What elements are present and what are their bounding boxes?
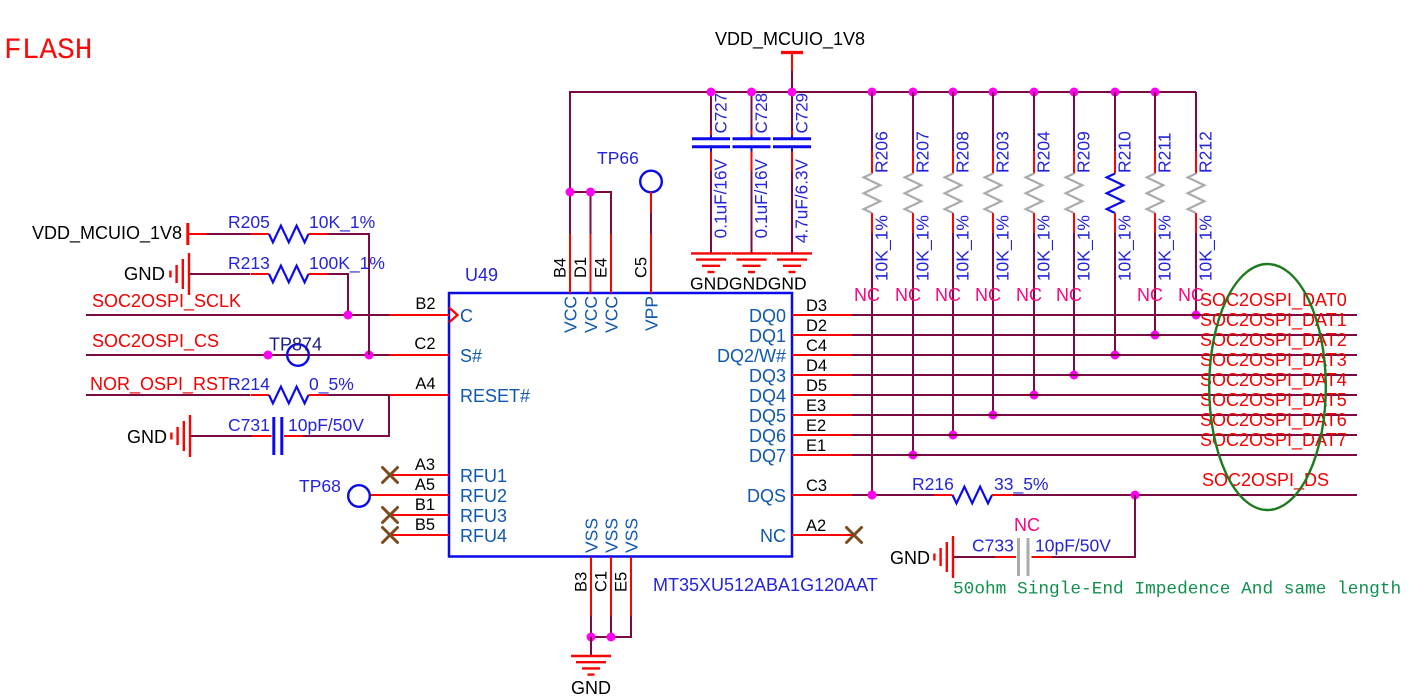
svg-text:D2: D2 <box>806 317 827 335</box>
svg-text:VPP: VPP <box>641 296 661 331</box>
svg-text:C728: C728 <box>752 93 771 134</box>
svg-text:E5: E5 <box>613 572 631 592</box>
svg-text:GND: GND <box>571 678 611 698</box>
svg-text:DQ0: DQ0 <box>749 306 786 326</box>
svg-text:D4: D4 <box>806 357 827 375</box>
svg-text:R203: R203 <box>993 131 1013 173</box>
svg-text:10K_1%: 10K_1% <box>1074 215 1095 281</box>
svg-text:GNDGNDGND: GNDGNDGND <box>690 274 807 294</box>
svg-text:C5: C5 <box>633 257 651 278</box>
svg-text:VCC: VCC <box>560 296 580 333</box>
svg-text:100K_1%: 100K_1% <box>309 253 385 274</box>
svg-text:10K_1%: 10K_1% <box>1196 215 1217 281</box>
svg-text:RFU2: RFU2 <box>460 486 507 506</box>
svg-text:VDD_MCUIO_1V8: VDD_MCUIO_1V8 <box>32 223 182 244</box>
svg-text:10K_1%: 10K_1% <box>872 215 893 281</box>
svg-text:U49: U49 <box>465 265 498 285</box>
svg-text:R211: R211 <box>1155 132 1175 173</box>
svg-text:NC: NC <box>1056 285 1082 305</box>
svg-text:VSS: VSS <box>621 518 641 553</box>
svg-text:DQ7: DQ7 <box>749 446 786 466</box>
svg-text:DQ4: DQ4 <box>749 386 786 406</box>
svg-text:FLASH: FLASH <box>4 33 93 67</box>
svg-text:RFU4: RFU4 <box>460 526 507 546</box>
svg-text:10pF/50V: 10pF/50V <box>288 415 364 435</box>
svg-text:10K_1%: 10K_1% <box>1115 215 1136 281</box>
svg-text:R205: R205 <box>228 212 270 232</box>
svg-text:VSS: VSS <box>601 518 621 553</box>
svg-text:SOC2OSPI_SCLK: SOC2OSPI_SCLK <box>92 291 241 312</box>
svg-text:0.1uF/16V: 0.1uF/16V <box>751 158 771 238</box>
svg-text:B2: B2 <box>415 295 435 313</box>
svg-text:C1: C1 <box>593 571 611 592</box>
svg-text:TP68: TP68 <box>299 476 341 496</box>
svg-text:GND: GND <box>890 548 930 568</box>
svg-text:RFU1: RFU1 <box>460 466 507 486</box>
svg-text:C3: C3 <box>806 477 827 495</box>
svg-text:E4: E4 <box>593 258 611 278</box>
svg-text:NC: NC <box>1014 515 1040 535</box>
svg-text:DQ1: DQ1 <box>749 326 786 346</box>
svg-text:DQ3: DQ3 <box>749 366 786 386</box>
svg-text:C: C <box>460 306 473 326</box>
svg-text:TP874: TP874 <box>269 335 322 355</box>
svg-text:R206: R206 <box>872 131 892 173</box>
svg-text:RFU3: RFU3 <box>460 506 507 526</box>
svg-text:E1: E1 <box>806 437 826 455</box>
svg-text:NC: NC <box>1016 285 1042 305</box>
svg-text:R204: R204 <box>1034 131 1054 173</box>
svg-text:10K_1%: 10K_1% <box>309 212 375 233</box>
svg-text:0.1uF/16V: 0.1uF/16V <box>711 158 731 238</box>
svg-text:A2: A2 <box>806 517 826 535</box>
svg-text:10K_1%: 10K_1% <box>993 215 1014 281</box>
svg-text:NC: NC <box>975 285 1001 305</box>
svg-text:A4: A4 <box>415 375 435 393</box>
svg-text:D3: D3 <box>806 297 827 315</box>
svg-text:VDD_MCUIO_1V8: VDD_MCUIO_1V8 <box>715 29 865 50</box>
svg-text:R212: R212 <box>1196 131 1216 173</box>
svg-text:SOC2OSPI_CS: SOC2OSPI_CS <box>92 331 219 352</box>
svg-text:10K_1%: 10K_1% <box>1155 215 1176 281</box>
svg-text:10pF/50V: 10pF/50V <box>1035 536 1111 556</box>
svg-text:NC: NC <box>854 285 880 305</box>
svg-text:GND: GND <box>124 263 165 284</box>
svg-text:D5: D5 <box>806 377 827 395</box>
svg-text:R209: R209 <box>1074 131 1094 173</box>
svg-text:A5: A5 <box>415 476 435 494</box>
svg-text:GND: GND <box>127 427 167 447</box>
svg-text:B4: B4 <box>552 258 570 278</box>
svg-text:R213: R213 <box>228 253 270 273</box>
svg-text:SOC2OSPI_DAT7: SOC2OSPI_DAT7 <box>1200 430 1347 451</box>
svg-text:R214: R214 <box>228 374 270 394</box>
svg-text:NC: NC <box>935 285 961 305</box>
svg-text:B5: B5 <box>415 516 435 534</box>
svg-text:D1: D1 <box>572 257 590 278</box>
svg-text:10K_1%: 10K_1% <box>1034 215 1055 281</box>
svg-text:E3: E3 <box>806 397 826 415</box>
svg-text:C733: C733 <box>972 536 1014 556</box>
svg-text:MT35XU512ABA1G120AAT: MT35XU512ABA1G120AAT <box>653 575 878 595</box>
svg-text:NOR_OSPI_RST: NOR_OSPI_RST <box>90 374 229 395</box>
svg-text:R208: R208 <box>953 131 973 173</box>
svg-text:33_5%: 33_5% <box>994 474 1049 495</box>
svg-text:RESET#: RESET# <box>460 386 530 406</box>
svg-text:DQ2/W#: DQ2/W# <box>717 346 786 366</box>
svg-text:R216: R216 <box>912 474 954 494</box>
svg-text:A3: A3 <box>415 456 435 474</box>
svg-text:B3: B3 <box>573 572 591 592</box>
svg-text:NC: NC <box>1137 285 1163 305</box>
svg-text:50ohm Single-End Impedence And: 50ohm Single-End Impedence And same leng… <box>953 580 1401 600</box>
svg-text:VCC: VCC <box>581 296 601 333</box>
svg-text:4.7uF/6.3V: 4.7uF/6.3V <box>792 158 812 243</box>
svg-text:C729: C729 <box>793 93 812 134</box>
svg-text:NC: NC <box>895 285 921 305</box>
svg-text:C731: C731 <box>228 415 270 435</box>
svg-text:C727: C727 <box>712 93 731 134</box>
svg-text:DQS: DQS <box>747 486 786 506</box>
svg-text:C2: C2 <box>414 335 435 353</box>
svg-text:0_5%: 0_5% <box>309 374 354 395</box>
svg-text:S#: S# <box>460 346 482 366</box>
svg-text:10K_1%: 10K_1% <box>913 215 934 281</box>
svg-text:R210: R210 <box>1115 131 1135 173</box>
svg-text:VSS: VSS <box>581 518 601 553</box>
svg-text:R207: R207 <box>913 131 933 173</box>
svg-text:SOC2OSPI_DAT2: SOC2OSPI_DAT2 <box>1200 330 1347 351</box>
svg-text:C4: C4 <box>806 337 827 355</box>
svg-text:NC: NC <box>760 526 786 546</box>
svg-text:10K_1%: 10K_1% <box>953 215 974 281</box>
svg-text:DQ5: DQ5 <box>749 406 786 426</box>
svg-text:VCC: VCC <box>601 296 621 333</box>
svg-text:TP66: TP66 <box>597 148 639 168</box>
svg-text:B1: B1 <box>415 496 435 514</box>
svg-text:E2: E2 <box>806 417 826 435</box>
svg-text:DQ6: DQ6 <box>749 426 786 446</box>
